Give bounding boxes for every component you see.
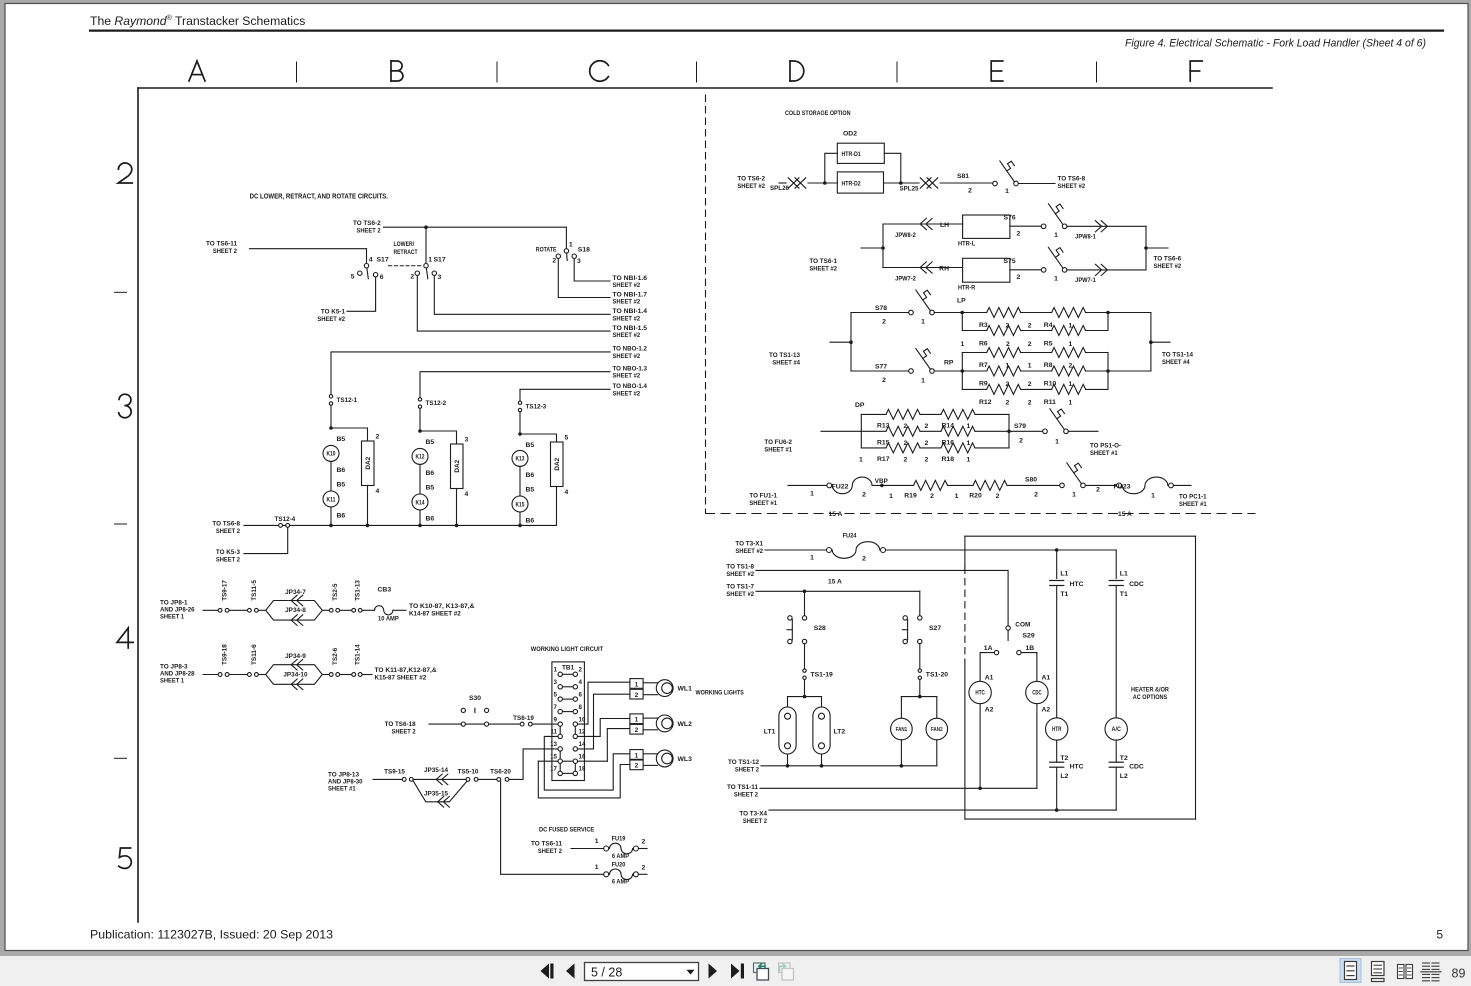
- svg-text:1: 1: [810, 491, 814, 498]
- wire DP row R13 segments: [861, 413, 886, 415]
- svg-text:JP34-8: JP34-8: [285, 607, 306, 614]
- svg-text:HTC: HTC: [975, 691, 985, 697]
- wire NBO-1.3 to TS12-2: [420, 372, 610, 398]
- svg-text:1: 1: [955, 493, 959, 500]
- node TS1-13 junction: [849, 340, 853, 344]
- svg-text:S76: S76: [1004, 215, 1016, 222]
- node junction before HTR-D2: [823, 181, 827, 185]
- frame border top: [138, 87, 1272, 89]
- svg-text:CDC: CDC: [1129, 581, 1144, 588]
- svg-text:HTR-D2: HTR-D2: [842, 180, 862, 187]
- terminal TS9-18: [218, 673, 222, 677]
- wire T3-X4 rail: [769, 809, 1116, 811]
- wire S77 to RP: [934, 370, 962, 372]
- wire TS12-4 to K5-3: [244, 527, 288, 553]
- wire rail down to S18 pin 1: [565, 227, 567, 248]
- svg-text:SHEET #2: SHEET #2: [1058, 183, 1086, 190]
- node junction branch K12: [418, 429, 422, 433]
- wire TS12 to junction x=420: [419, 408, 421, 431]
- svg-text:B6: B6: [337, 467, 346, 474]
- svg-text:SHEET 2: SHEET 2: [216, 528, 240, 535]
- wire S17A pin6 to K5-1: [347, 277, 376, 311]
- wire: [340, 609, 352, 611]
- svg-text:SHEET 2: SHEET 2: [213, 248, 237, 255]
- svg-text:HTR: HTR: [1052, 727, 1062, 733]
- relay coil K14: [412, 494, 428, 510]
- svg-text:TO TS6-8: TO TS6-8: [1058, 176, 1086, 183]
- wire HTR-R to S75: [1010, 269, 1041, 271]
- svg-text:R12: R12: [979, 399, 992, 406]
- TB1 pin links rows 1-8: [562, 673, 573, 675]
- svg-text:2: 2: [930, 493, 934, 500]
- options box HEATER &/OR AC OPTIONS: [965, 535, 1196, 537]
- node left heater junction: [881, 246, 885, 250]
- wire TS6-20 down to FU20: [501, 781, 604, 874]
- svg-text:WORKING LIGHT CIRCUIT: WORKING LIGHT CIRCUIT: [531, 646, 604, 653]
- svg-text:B6: B6: [526, 472, 535, 479]
- svg-text:TO FU1-1: TO FU1-1: [749, 493, 777, 500]
- toolbar previous-page button: [566, 964, 575, 979]
- wire TS1-7 rail: [756, 590, 920, 592]
- RP panel left vertical: [961, 353, 963, 390]
- svg-text:2: 2: [1096, 487, 1100, 494]
- svg-text:K11: K11: [327, 497, 337, 503]
- svg-text:13: 13: [550, 741, 557, 748]
- wire TS1-20 to fan tee: [919, 680, 921, 697]
- svg-text:2: 2: [1006, 341, 1010, 348]
- wire lamp crossbar: [788, 696, 822, 698]
- svg-text:1: 1: [1072, 491, 1076, 498]
- node DP right junction: [1007, 430, 1011, 434]
- HTR string vertical mid: [1056, 586, 1058, 718]
- svg-text:TS11-6: TS11-6: [251, 644, 258, 665]
- svg-text:6 AMP: 6 AMP: [612, 879, 630, 886]
- svg-text:1B: 1B: [1026, 645, 1035, 652]
- svg-text:B5: B5: [426, 439, 435, 446]
- wire LP to right rail: [1108, 312, 1151, 314]
- wire pin 14 to WL1-2: [578, 694, 630, 749]
- svg-text:TS9-17: TS9-17: [222, 580, 229, 601]
- svg-text:6: 6: [380, 274, 384, 281]
- wire junction up to HTR-D1: [825, 153, 838, 183]
- wire: [478, 778, 497, 780]
- svg-text:DC LOWER, RETRACT, AND ROTATE: DC LOWER, RETRACT, AND ROTATE CIRCUITS.: [250, 194, 388, 201]
- svg-text:R7: R7: [979, 362, 988, 369]
- wire: [259, 609, 266, 611]
- svg-text:4: 4: [579, 679, 583, 686]
- svg-text:FU19: FU19: [612, 836, 626, 843]
- svg-text:L2: L2: [1060, 773, 1068, 780]
- wire SPL25 to S81: [940, 182, 993, 184]
- svg-text:TO TS6-1: TO TS6-1: [809, 258, 837, 265]
- svg-text:TS12-3: TS12-3: [526, 404, 547, 411]
- svg-text:TO TS6-2: TO TS6-2: [353, 220, 381, 227]
- svg-text:2: 2: [1034, 491, 1038, 498]
- wire K10 to K11: [330, 461, 332, 491]
- wire VBP to R19: [872, 484, 914, 486]
- svg-text:5: 5: [565, 435, 569, 442]
- svg-text:10 AMP: 10 AMP: [378, 615, 399, 622]
- svg-text:5: 5: [1436, 928, 1443, 942]
- svg-text:R5: R5: [1044, 341, 1053, 348]
- node LP left junction: [960, 311, 964, 315]
- contactor coil HTC: [969, 681, 991, 703]
- wire FU20 out: [638, 873, 647, 875]
- header rule: [90, 30, 1443, 32]
- svg-text:DP: DP: [855, 402, 865, 409]
- svg-text:4: 4: [369, 257, 373, 264]
- svg-text:SHEET #2: SHEET #2: [737, 183, 765, 190]
- svg-text:SPL26: SPL26: [770, 185, 789, 192]
- svg-text:OD2: OD2: [843, 131, 857, 138]
- svg-text:HTR-L: HTR-L: [958, 241, 975, 248]
- svg-text:2: 2: [996, 493, 1000, 500]
- toolbar continuous-scroll view button: [1372, 962, 1385, 976]
- node RP left junction: [961, 369, 965, 373]
- svg-text:R19: R19: [904, 492, 917, 499]
- svg-text:WL1: WL1: [678, 686, 693, 693]
- wire RP row R7 segments: [962, 352, 986, 354]
- svg-text:S29: S29: [1023, 633, 1035, 640]
- heater HTR-R box: [963, 258, 1010, 282]
- bottom rail of relay section: [244, 524, 556, 526]
- HTR string vertical upper: [1056, 550, 1058, 579]
- relay coil K12: [412, 448, 428, 464]
- svg-text:1: 1: [921, 378, 925, 385]
- wire junction to DA2 branch K10: [331, 428, 368, 441]
- wire: [322, 609, 329, 611]
- svg-text:COLD STORAGE OPTION: COLD STORAGE OPTION: [785, 110, 851, 117]
- svg-text:S18: S18: [578, 247, 590, 254]
- svg-text:1: 1: [635, 717, 639, 724]
- wire TS6-20 to TB1 pin 13: [509, 749, 558, 780]
- wire fans to rail: [900, 740, 902, 766]
- svg-text:SPL25: SPL25: [900, 186, 919, 193]
- wire junction to DA2 branch K12: [420, 431, 457, 444]
- svg-text:CDC: CDC: [1032, 691, 1042, 697]
- svg-text:2: 2: [1028, 341, 1032, 348]
- svg-text:2: 2: [1028, 381, 1032, 388]
- wire DA2 to bottom rail branch K10: [367, 486, 369, 526]
- wire: [259, 674, 266, 676]
- svg-text:FAN1: FAN1: [896, 727, 908, 733]
- svg-text:TO JP8-3: TO JP8-3: [160, 664, 188, 671]
- svg-text:TS6-20: TS6-20: [490, 769, 511, 776]
- svg-text:FU20: FU20: [612, 861, 626, 868]
- fan FAN1: [891, 718, 913, 740]
- wire stub TO TS6-6: [1146, 247, 1168, 249]
- node LP right junction: [1106, 311, 1110, 315]
- resistor R13: [886, 409, 920, 419]
- svg-text:A1: A1: [1042, 675, 1051, 682]
- resistor R3: [987, 308, 1021, 318]
- svg-text:TO TS1-13: TO TS1-13: [769, 352, 800, 359]
- svg-text:TO NBI-1.5: TO NBI-1.5: [613, 325, 648, 332]
- wire TB1 pin 15/16 row: [538, 760, 558, 762]
- svg-text:2: 2: [552, 258, 556, 265]
- svg-text:JPW8-1: JPW8-1: [1075, 234, 1096, 241]
- svg-text:S17: S17: [434, 257, 446, 264]
- svg-text:HTR-D1: HTR-D1: [842, 151, 862, 158]
- wire S78 to LP: [934, 312, 962, 314]
- svg-text:JPW7-2: JPW7-2: [895, 276, 916, 283]
- svg-text:K13: K13: [516, 457, 526, 463]
- toolbar page-number box: [585, 963, 699, 981]
- svg-text:2: 2: [862, 491, 866, 498]
- wire stub TO TS1-13: [830, 341, 851, 343]
- resistor R16: [941, 426, 975, 436]
- svg-text:1: 1: [1028, 363, 1032, 370]
- svg-text:2: 2: [925, 423, 929, 430]
- svg-text:TO TS1-7: TO TS1-7: [726, 584, 754, 591]
- wire CDC to TS1-11 rail: [1036, 704, 1038, 789]
- wire CB3 out: [393, 609, 406, 611]
- svg-text:AND JP8-28: AND JP8-28: [160, 671, 195, 678]
- svg-text:2: 2: [904, 456, 908, 463]
- diode assembly DA2 branch K13: [551, 442, 564, 487]
- svg-text:TO JP8-1: TO JP8-1: [160, 600, 188, 607]
- node rail junctions: [329, 524, 333, 528]
- lamp WL3: [656, 750, 673, 767]
- lamp WL2: [656, 715, 673, 732]
- svg-text:R8: R8: [1044, 362, 1053, 369]
- svg-text:TO TS1-11: TO TS1-11: [727, 784, 758, 791]
- svg-text:2: 2: [1028, 399, 1032, 406]
- svg-text:1A: 1A: [984, 645, 993, 652]
- svg-text:B5: B5: [337, 436, 346, 443]
- svg-text:T2: T2: [1120, 755, 1128, 762]
- diode assembly DA2 branch K12: [451, 444, 464, 489]
- wire DA2 to bottom rail branch K12: [456, 489, 458, 526]
- svg-text:Publication: 1123027B, Issued:: Publication: 1123027B, Issued: 20 Sep 20…: [90, 928, 333, 942]
- svg-text:89: 89: [1452, 967, 1466, 981]
- wire HTR-D1 to junction right: [884, 153, 901, 183]
- svg-text:T1: T1: [1120, 591, 1128, 598]
- svg-text:R3: R3: [979, 322, 988, 329]
- svg-text:1: 1: [554, 667, 558, 674]
- wire to CB3: [362, 609, 374, 611]
- lamp LT1: [779, 707, 796, 754]
- svg-text:The Raymond® Transtacker Schem: The Raymond® Transtacker Schematics: [90, 13, 305, 28]
- wire pin 12 to WL2-1: [578, 719, 630, 737]
- resistor R5: [1052, 326, 1086, 336]
- svg-text:1: 1: [635, 752, 639, 759]
- svg-text:K15-87 SHEET #2: K15-87 SHEET #2: [375, 675, 427, 682]
- DP panel right vertical: [1008, 414, 1010, 448]
- svg-text:SHEET 2: SHEET 2: [216, 556, 240, 563]
- wire RP mid row to right rail: [1108, 370, 1151, 372]
- svg-text:K12: K12: [416, 455, 426, 461]
- grid column letters: [189, 61, 205, 81]
- svg-text:WL3: WL3: [678, 756, 693, 763]
- svg-text:TO T3-X1: TO T3-X1: [735, 541, 763, 548]
- wire pin 15 to WL3-2: [538, 761, 630, 798]
- svg-text:6: 6: [579, 691, 583, 698]
- svg-text:1: 1: [889, 493, 893, 500]
- svg-text:SHEET #2: SHEET #2: [613, 390, 641, 397]
- grid row tick marks: [115, 291, 127, 293]
- svg-text:15 A: 15 A: [828, 579, 842, 586]
- svg-text:A1: A1: [985, 675, 994, 682]
- svg-text:SHEET #1: SHEET #1: [749, 500, 777, 507]
- svg-text:TS6-19: TS6-19: [513, 715, 534, 722]
- wire: [340, 674, 352, 676]
- svg-text:3: 3: [554, 679, 558, 686]
- wire pin 16 to WL2-2: [607, 729, 629, 762]
- svg-text:TB1: TB1: [562, 664, 575, 671]
- svg-text:S75: S75: [1004, 258, 1016, 265]
- svg-text:15: 15: [550, 753, 557, 760]
- svg-text:LH: LH: [940, 222, 949, 229]
- svg-text:B6: B6: [337, 513, 346, 520]
- svg-text:S17: S17: [377, 257, 389, 264]
- resistor R17: [886, 443, 920, 453]
- svg-text:5 / 28: 5 / 28: [591, 966, 622, 980]
- svg-text:RETRACT: RETRACT: [394, 249, 419, 256]
- node HTR rail junction: [1055, 808, 1059, 812]
- node TS1-14 junction: [1149, 340, 1153, 344]
- svg-text:R11: R11: [1044, 399, 1056, 406]
- svg-text:TO NBI-1.6: TO NBI-1.6: [613, 275, 648, 282]
- svg-text:TS1-19: TS1-19: [811, 671, 834, 678]
- svg-text:S80: S80: [1025, 477, 1037, 484]
- resistor R6: [987, 326, 1021, 336]
- resistor R12: [987, 384, 1021, 394]
- svg-text:TS5-10: TS5-10: [458, 769, 479, 776]
- wire 1B to CDC: [1021, 653, 1037, 682]
- wire TS1-8 to S29 COM: [756, 570, 1008, 625]
- svg-text:S28: S28: [814, 625, 826, 632]
- resistor R18: [941, 443, 975, 453]
- svg-text:SHEET 2: SHEET 2: [357, 228, 381, 235]
- svg-text:2: 2: [1017, 231, 1021, 238]
- wire K11 to bottom rail: [330, 507, 332, 525]
- svg-text:2: 2: [1017, 274, 1021, 281]
- svg-text:R6: R6: [979, 341, 988, 348]
- svg-text:JPW7-1: JPW7-1: [1075, 277, 1096, 284]
- svg-text:FU23: FU23: [1114, 484, 1131, 491]
- terminal TS2-6: [329, 673, 333, 677]
- svg-text:1: 1: [1054, 232, 1058, 239]
- wire: [229, 609, 247, 611]
- resistor R9: [987, 366, 1021, 376]
- svg-text:4: 4: [565, 489, 569, 496]
- svg-text:2: 2: [1028, 323, 1032, 330]
- svg-text:TO NBO-1.2: TO NBO-1.2: [613, 346, 648, 353]
- svg-text:K14: K14: [416, 500, 426, 506]
- wire lead-in: [373, 778, 402, 780]
- connector boxes WL3: [630, 750, 643, 760]
- svg-text:17: 17: [550, 766, 557, 773]
- svg-text:SHEET #2: SHEET #2: [613, 353, 641, 360]
- svg-text:AC OPTIONS: AC OPTIONS: [1133, 694, 1168, 701]
- resistor R4: [1052, 308, 1086, 318]
- svg-text:11: 11: [550, 729, 557, 736]
- toolbar next-page button: [709, 964, 718, 979]
- svg-text:SHEET #2: SHEET #2: [317, 316, 345, 323]
- svg-text:B5: B5: [426, 485, 435, 492]
- node HTC rail junction: [978, 787, 982, 791]
- wire TS12 to junction x=520: [519, 412, 521, 434]
- wire S79 out: [1068, 430, 1098, 432]
- svg-text:15 A: 15 A: [829, 511, 843, 518]
- svg-text:2: 2: [1019, 438, 1023, 445]
- svg-text:B5: B5: [526, 487, 535, 494]
- resistor R10: [1052, 366, 1086, 376]
- svg-text:TO TS6-8: TO TS6-8: [212, 521, 240, 528]
- wire: [322, 674, 329, 676]
- wire junction down to S17 pin 1: [425, 227, 427, 263]
- toolbar next-view button (disabled): [779, 963, 791, 973]
- switch S27: [918, 616, 922, 620]
- svg-text:SHEET #2: SHEET #2: [613, 299, 641, 306]
- svg-text:HTR-R: HTR-R: [958, 285, 975, 292]
- svg-text:1: 1: [1151, 492, 1155, 499]
- wire S17B pin3 to NBI-1.4: [434, 276, 610, 315]
- svg-text:TO K5-3: TO K5-3: [216, 549, 240, 556]
- wire TS1-11 rail: [760, 787, 1037, 789]
- wire down to S27: [919, 591, 921, 615]
- node junction branch K13: [518, 432, 522, 436]
- terminal TS1-13: [352, 608, 356, 612]
- thermostat switch S75: [1041, 268, 1046, 273]
- svg-text:HTC: HTC: [1070, 763, 1084, 770]
- svg-text:1: 1: [635, 681, 639, 688]
- svg-text:JP34-7: JP34-7: [285, 589, 306, 596]
- svg-text:4: 4: [376, 488, 380, 495]
- svg-text:16: 16: [579, 753, 586, 760]
- svg-text:2: 2: [635, 692, 639, 699]
- svg-text:LP: LP: [957, 298, 966, 305]
- heater HTR-D2: [837, 172, 883, 193]
- svg-text:B5: B5: [526, 442, 535, 449]
- svg-text:TO JP8-13: TO JP8-13: [328, 771, 359, 778]
- wire S17B pin2 to NBI-1.5: [417, 276, 610, 332]
- svg-text:3: 3: [438, 274, 442, 281]
- wire pin 10 to WL1-1: [578, 682, 630, 724]
- svg-text:5: 5: [351, 274, 355, 281]
- svg-text:SHEET #2: SHEET #2: [735, 548, 763, 555]
- wire top heater branch lead: [883, 223, 963, 225]
- svg-text:TS12-2: TS12-2: [426, 400, 447, 407]
- svg-text:1: 1: [595, 838, 599, 845]
- cold storage dashed boundary horizontal: [706, 513, 1256, 515]
- svg-text:SHEET 2: SHEET 2: [735, 767, 759, 774]
- wire stub TO TS1-14: [1151, 341, 1170, 343]
- svg-text:1: 1: [595, 864, 599, 871]
- svg-text:TO FU6-2: TO FU6-2: [764, 439, 792, 446]
- svg-text:TO PC1-1: TO PC1-1: [1179, 494, 1207, 501]
- wire fan crossbar: [901, 696, 936, 698]
- svg-text:L1: L1: [1060, 570, 1068, 577]
- svg-text:TS11-5: TS11-5: [251, 580, 258, 601]
- connector plug JP34-9/JP34-10 hexagon: [266, 665, 323, 685]
- wire upper path JP35-14: [413, 778, 466, 780]
- splice SPL25: [920, 178, 931, 188]
- svg-text:TS2-5: TS2-5: [332, 583, 339, 600]
- svg-text:DC FUSED SERVICE: DC FUSED SERVICE: [539, 827, 595, 834]
- svg-text:2: 2: [642, 864, 646, 871]
- resistor R14: [941, 409, 975, 419]
- svg-text:1: 1: [1005, 188, 1009, 195]
- svg-text:1: 1: [428, 257, 432, 264]
- resistor R8: [1052, 348, 1086, 358]
- terminal TS12-2: [418, 398, 421, 401]
- toolbar last-page button: [731, 964, 740, 979]
- svg-text:HTC: HTC: [1070, 581, 1084, 588]
- fan FAN2: [926, 718, 948, 740]
- svg-text:JPW8-2: JPW8-2: [895, 232, 916, 239]
